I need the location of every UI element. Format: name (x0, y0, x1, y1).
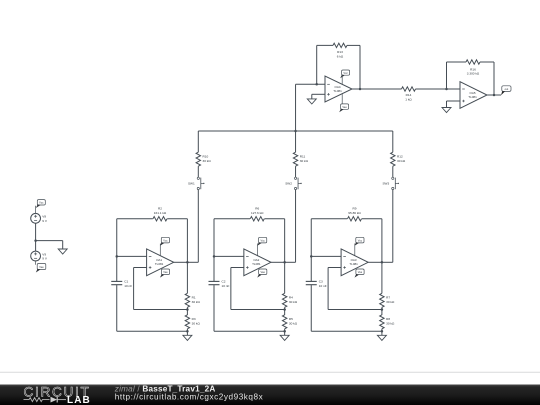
wire stage OA3 left vertical upper (310, 219, 312, 281)
ground OA5 non-inverting input (442, 108, 451, 113)
wire stage OA2 left vertical upper (213, 219, 215, 281)
wire OA3 output from triangle (368, 261, 382, 263)
svg-text:Vee: Vee (39, 265, 44, 269)
svg-text:TL081: TL081 (468, 95, 477, 99)
wire stage OA3 ground stem (381, 331, 383, 335)
svg-text:10 nF: 10 nF (124, 284, 132, 288)
node OA3 divider tee (381, 308, 384, 311)
wire OA1 non-inverting return (134, 309, 188, 311)
wire V8 to V9 (35, 223, 37, 251)
flag Vee OA3 (355, 269, 365, 278)
label R4 value (289, 296, 298, 304)
wire SW3 to stage 3 output (392, 190, 394, 263)
svg-text:TL081: TL081 (252, 262, 261, 266)
wire stage OA2 bottom (214, 330, 285, 332)
wire OA1 output from triangle (174, 261, 188, 263)
label R6 value (251, 207, 264, 215)
wire stage OA2 output vertical upper (284, 219, 286, 263)
node stage OA3 ground junction (381, 330, 384, 333)
wire divider middle OA2 (284, 307, 286, 315)
svg-text:out: out (505, 87, 509, 91)
op-amp OA5 TL081 (460, 82, 487, 109)
label C1 value (124, 280, 132, 288)
svg-text:30 kΩ: 30 kΩ (397, 159, 406, 163)
wire OA2 non-inverting return (231, 309, 285, 311)
resistor R12 (391, 152, 395, 166)
capacitor C1 (111, 281, 122, 284)
wire stage OA3 left vertical lower (310, 285, 312, 331)
wire stage OA3 output vertical upper (381, 219, 383, 263)
wire stage OA1 output to divider (186, 262, 188, 293)
op-amp OA1 TL081 (147, 249, 174, 276)
wire R2 to output vertical (167, 218, 187, 220)
voltage source V8 (31, 213, 41, 223)
node OA3 inverting tee (310, 255, 313, 258)
wire OA3 inverting input (311, 255, 341, 257)
svg-text:Vcc: Vcc (39, 201, 44, 205)
flag Vcc OA1 (160, 237, 170, 246)
pin OA2 V+ lead (257, 244, 259, 257)
svg-text:Vee: Vee (342, 105, 347, 109)
capacitor C3 (306, 281, 317, 284)
op-amp OA4 TL081 (325, 76, 352, 102)
svg-text:30 kΩ: 30 kΩ (289, 322, 298, 326)
wire stage OA1 left vertical upper (116, 219, 118, 281)
svg-text:http://circuitlab.com/cgxc2yd9: http://circuitlab.com/cgxc2yd93kq8x (115, 393, 263, 402)
svg-text:10 nF: 10 nF (222, 284, 230, 288)
node OA2 inverting tee (213, 255, 216, 258)
wire stage OA1 feedback top (117, 218, 153, 220)
svg-text:Vcc: Vcc (343, 71, 348, 75)
svg-text:SW2: SW2 (285, 182, 292, 186)
svg-text:161.1 kΩ: 161.1 kΩ (154, 211, 167, 215)
wire divider bottom OA2 (284, 329, 286, 331)
wire OA2 non-inverting input (231, 267, 244, 269)
wire stage OA3 feedback top (311, 218, 347, 220)
svg-text:30 kΩ: 30 kΩ (386, 300, 395, 304)
svg-text:6 kΩ: 6 kΩ (337, 55, 344, 59)
pin OA3 V+ lead (354, 244, 356, 257)
wire R16 feedback right vertical (493, 62, 495, 95)
svg-text:Vee: Vee (358, 270, 363, 274)
wire SW1 to stage 1 output (197, 190, 199, 263)
resistor R3 (185, 315, 189, 329)
wire R13 feedback top left (317, 44, 333, 46)
wire R6 to output vertical (264, 218, 284, 220)
svg-text:30 kΩ: 30 kΩ (386, 322, 395, 326)
wire R13 feedback right vertical (359, 45, 361, 89)
wire OA2 non-inverting drop (230, 268, 232, 310)
flag Vcc OA4 (340, 70, 349, 78)
wire divider middle OA1 (186, 307, 188, 315)
wire bus drop 1 upper (197, 131, 199, 152)
label R16 value (467, 67, 480, 75)
switch SW2 (285, 177, 302, 189)
label R13 value (337, 50, 344, 58)
label R10 value (203, 155, 212, 163)
node OA5 inverting input junction (445, 88, 448, 91)
flag Vee OA4 (339, 104, 348, 112)
node OA1 output junction (186, 261, 189, 264)
resistor R8 (380, 315, 384, 329)
wire R13 feedback top right (347, 44, 360, 46)
wire stage OA2 output to divider (284, 262, 286, 293)
svg-text:SW3: SW3 (382, 182, 389, 186)
wire stage OA2 feedback top (214, 218, 250, 220)
svg-text:LAB: LAB (67, 395, 91, 405)
svg-text:TL081: TL081 (333, 89, 342, 93)
wire R16 feedback left vertical (446, 62, 448, 89)
label R7 value (386, 296, 395, 304)
wire divider bottom OA1 (186, 329, 188, 331)
resistor R2 (153, 217, 167, 221)
label V9 value (42, 252, 48, 260)
resistor R11 (293, 152, 297, 166)
node OA2 output junction (283, 261, 286, 264)
wire OA3 non-inverting return (328, 309, 382, 311)
flag Vee OA1 (160, 269, 170, 278)
switch SW1 (188, 177, 205, 189)
label R11 value (300, 155, 309, 163)
svg-text:30 kΩ: 30 kΩ (203, 159, 212, 163)
flag Vcc OA2 (257, 237, 267, 246)
node supply midpoint (34, 239, 37, 242)
svg-text:Vcc: Vcc (358, 239, 363, 243)
node OA1 divider tee (186, 308, 189, 311)
svg-text:30 kΩ: 30 kΩ (300, 159, 309, 163)
wire stage OA2 ground stem (284, 331, 286, 335)
wire R12 to SW3 (392, 166, 394, 177)
node OA1 inverting tee (116, 255, 119, 258)
resistor R9 (348, 217, 362, 221)
svg-text:Vcc: Vcc (163, 239, 168, 243)
ground stage OA2 (280, 335, 289, 340)
flag Vee OA2 (257, 269, 267, 278)
svg-text:10 nF: 10 nF (319, 284, 327, 288)
wire chain 1 bottom bend (187, 261, 198, 263)
node bus center junction (294, 130, 297, 133)
label R8 value (386, 317, 395, 325)
ground stage OA3 (377, 335, 386, 340)
resistor R13 (333, 43, 347, 47)
label R9 value (348, 207, 361, 215)
resistor R5 (282, 315, 286, 329)
wire stage OA2 left vertical lower (213, 285, 215, 331)
node OA3 output junction (381, 261, 384, 264)
wire summing bus (198, 130, 392, 132)
separator line (0, 371, 540, 373)
label R12 value (397, 155, 406, 163)
wire OA1 non-inverting drop (133, 268, 135, 310)
flag out (501, 86, 511, 96)
wire OA4 non-inverting input (312, 93, 325, 95)
node OA4 output junction (359, 88, 362, 91)
op-amp OA3 TL081 (341, 249, 368, 276)
label R14 value (405, 93, 412, 101)
resistor R1 (185, 293, 189, 307)
wire SW2 to stage 2 output (295, 190, 297, 263)
svg-text:Vee: Vee (163, 270, 168, 274)
wire V9 to Vee flag (35, 261, 37, 265)
wire R16 feedback top right (480, 61, 494, 63)
pin OA1 V+ lead (159, 244, 161, 257)
label R1 value (192, 296, 201, 304)
wire chain 2 bottom bend (285, 261, 296, 263)
logo wire with resistor and diode (24, 397, 67, 403)
wire OA1 non-inverting input (134, 267, 147, 269)
wire OA3 non-inverting drop (327, 268, 329, 310)
wire bus drop 2 upper (295, 131, 297, 152)
wire stage OA3 bottom (311, 330, 382, 332)
flag Vcc OA3 (354, 237, 364, 246)
wire R16 feedback top left (447, 61, 467, 63)
footer bar (0, 385, 540, 405)
wire stage OA1 output vertical upper (186, 219, 188, 263)
wire OA2 inverting input (214, 255, 244, 257)
node OA5 output junction (493, 94, 496, 97)
wire divider bottom OA3 (381, 329, 383, 331)
wire R14 to OA5 (416, 88, 461, 90)
pin OA4 V+ lead (341, 75, 343, 84)
resistor R7 (380, 293, 384, 307)
wire R10 to SW1 (197, 166, 199, 177)
flag Vee supply (36, 264, 46, 273)
wire stage OA1 ground stem (186, 331, 188, 335)
svg-text:3.300 kΩ: 3.300 kΩ (467, 72, 480, 76)
resistor R10 (196, 152, 200, 166)
wire Vcc flag to V8 (35, 206, 37, 214)
wire OA4 ground stem (311, 94, 313, 99)
wire OA4 output to R14 (352, 88, 402, 90)
capacitor C2 (209, 281, 220, 284)
wire OA5 output (487, 94, 501, 96)
label R2 value (154, 207, 167, 215)
svg-text:Vee: Vee (261, 270, 266, 274)
wire stage OA1 left vertical lower (116, 285, 118, 331)
wire OA5 non-inverting input (447, 100, 461, 102)
svg-text:TL081: TL081 (155, 262, 164, 266)
wire OA4 input vertical to bus (295, 84, 297, 131)
wire stage OA1 bottom (117, 330, 188, 332)
label C2 value (222, 280, 230, 288)
wire R9 to output vertical (362, 218, 382, 220)
op-amp OA2 TL081 (244, 249, 271, 276)
wire R11 to SW2 (295, 166, 297, 177)
wire chain 3 bottom bend (382, 261, 393, 263)
ground OA4 non-inverting input (307, 99, 316, 104)
ground supply midpoint (58, 249, 67, 254)
node OA2 divider tee (283, 308, 286, 311)
label R3 value (192, 317, 201, 325)
switch SW3 (382, 177, 399, 189)
wire R13 feedback left vertical (316, 45, 318, 84)
voltage source V9 (31, 251, 41, 261)
svg-text:SW1: SW1 (188, 182, 195, 186)
wire OA1 inverting input (117, 255, 147, 257)
wire OA5 ground stem (446, 101, 448, 108)
flag Vcc supply (36, 200, 45, 208)
wire stage OA3 output to divider (381, 262, 383, 293)
svg-text:30 kΩ: 30 kΩ (192, 300, 201, 304)
wire OA4 inverting input (296, 83, 325, 85)
svg-text:30 kΩ: 30 kΩ (192, 322, 201, 326)
svg-text:TL081: TL081 (349, 262, 358, 266)
wire OA2 output from triangle (271, 261, 285, 263)
node OA4 inverting input junction (315, 83, 318, 86)
svg-text:Vcc: Vcc (260, 239, 265, 243)
wire OA3 non-inverting input (328, 267, 341, 269)
svg-text:30 kΩ: 30 kΩ (289, 300, 298, 304)
ground stage OA1 (183, 335, 192, 340)
pin OA4 V- lead (341, 93, 343, 104)
wire supply midpoint to ground (36, 240, 63, 242)
svg-text:127.6 kΩ: 127.6 kΩ (251, 211, 264, 215)
svg-text:1 kΩ: 1 kΩ (405, 98, 412, 102)
resistor R6 (250, 217, 264, 221)
wire divider middle OA3 (381, 307, 383, 315)
resistor R16 (466, 60, 480, 64)
resistor R4 (282, 293, 286, 307)
svg-text:95.86 kΩ: 95.86 kΩ (348, 211, 361, 215)
wire bus drop 3 upper (392, 131, 394, 152)
label R5 value (289, 317, 298, 325)
resistor R14 (402, 87, 416, 91)
label C3 value (319, 280, 327, 288)
wire supply ground stem (62, 241, 64, 249)
label V8 value (42, 215, 48, 223)
node stage OA2 ground junction (283, 330, 286, 333)
node stage OA1 ground junction (186, 330, 189, 333)
